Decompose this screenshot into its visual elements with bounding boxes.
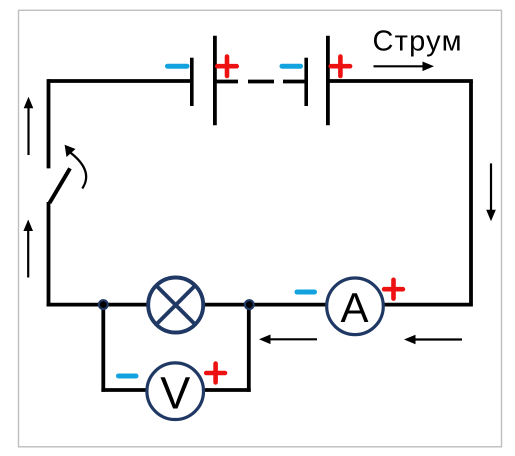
node A (left junction dot) bbox=[98, 299, 109, 310]
lamp EL1 cross bbox=[155, 285, 196, 326]
svg-text:A: A bbox=[340, 284, 368, 331]
battery B1 cell1 positive plate bbox=[213, 36, 217, 125]
wire left vertical upper bbox=[47, 79, 51, 168]
battery B1 cell1 negative plate bbox=[190, 58, 194, 106]
ammeter PA1 circle bbox=[327, 278, 384, 335]
wire bottom left segment bbox=[47, 303, 147, 307]
wire battery middle stub right bbox=[283, 80, 306, 84]
arrow down right side bbox=[486, 163, 496, 221]
lamp EL1 circle bbox=[148, 278, 203, 333]
wire left vertical lower bbox=[47, 202, 51, 307]
wire battery middle dash bbox=[248, 80, 274, 84]
arrow up left lower bbox=[23, 220, 33, 278]
node B (right junction dot) bbox=[244, 299, 255, 310]
switch S1 (open blade) bbox=[50, 168, 71, 203]
arrow up left upper bbox=[24, 97, 34, 155]
battery B1 cell2 positive plate bbox=[326, 36, 330, 125]
wire right vertical bbox=[469, 81, 473, 307]
arrow current direction top right bbox=[374, 62, 435, 72]
wire top-left horizontal bbox=[49, 79, 191, 83]
label plus cell1 bbox=[217, 57, 236, 77]
svg-text:Струм: Струм bbox=[373, 26, 462, 58]
wire lamp to ammeter bbox=[204, 303, 326, 307]
voltmeter PV1 circle bbox=[147, 363, 204, 420]
label minus voltmeter bbox=[119, 374, 137, 379]
wire voltmeter branch right vertical bbox=[247, 305, 251, 392]
label plus ammeter bbox=[384, 280, 403, 299]
label minus cell2 bbox=[282, 64, 301, 69]
label minus ammeter bbox=[297, 290, 315, 295]
wire voltmeter branch right horizontal bbox=[204, 388, 251, 392]
battery B1 cell2 negative plate bbox=[304, 58, 308, 106]
label plus cell2 bbox=[331, 57, 350, 77]
arrow left right of ammeter bbox=[404, 335, 462, 345]
wire battery middle stub left bbox=[215, 80, 238, 84]
wire voltmeter branch left horizontal bbox=[101, 388, 147, 392]
wire ammeter to right corner bbox=[384, 303, 471, 307]
arrow curved at switch bbox=[65, 145, 87, 189]
label plus voltmeter bbox=[206, 364, 225, 383]
svg-text:V: V bbox=[160, 368, 190, 419]
wire battery to right corner bbox=[328, 79, 473, 83]
arrow left between lamp and ammeter bbox=[259, 335, 317, 345]
label minus cell1 bbox=[168, 64, 188, 69]
wire voltmeter branch left vertical bbox=[101, 305, 105, 392]
